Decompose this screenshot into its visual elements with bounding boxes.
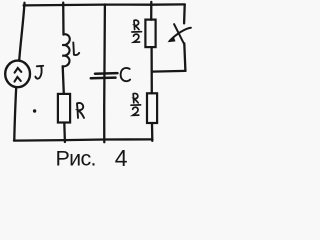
wire C-branch vertical <box>103 4 106 142</box>
switch S1 <box>169 24 191 43</box>
capacitor C1 <box>91 73 118 78</box>
wire bottom bus <box>14 139 153 140</box>
wire right vertical stub above switch <box>183 5 186 24</box>
wire below R3 to bottom bus end <box>151 123 154 141</box>
wire between R2 and switch junction <box>150 47 152 93</box>
wire below source to bottom-left corner <box>14 87 16 140</box>
label R/2 upper <box>132 20 142 42</box>
resistor R2 (R/2 upper) <box>145 20 155 47</box>
wire L-branch top <box>62 3 65 35</box>
resistor R3 (R/2 lower) <box>147 93 157 123</box>
wire right vertical below switch <box>184 43 185 71</box>
label J <box>35 66 43 79</box>
label C <box>121 68 130 81</box>
inductor L1 <box>62 34 70 66</box>
svg-text:Рис.: Рис. <box>56 147 96 171</box>
current source J1 <box>5 61 30 88</box>
wire between coil and R1 <box>63 66 64 93</box>
label L <box>73 43 79 56</box>
label R <box>77 103 84 118</box>
node dot stray mark <box>33 109 36 112</box>
svg-text:4: 4 <box>115 145 128 171</box>
label R/2 lower <box>131 93 141 115</box>
wire switch connector horizontal <box>152 70 186 73</box>
wire R/2-upper branch top <box>150 2 152 20</box>
wire top bus <box>24 4 185 5</box>
wire left vertical from top-left corner down to source <box>19 3 24 61</box>
resistor R1 <box>58 94 70 123</box>
wire below R1 to bottom bus <box>63 123 66 142</box>
